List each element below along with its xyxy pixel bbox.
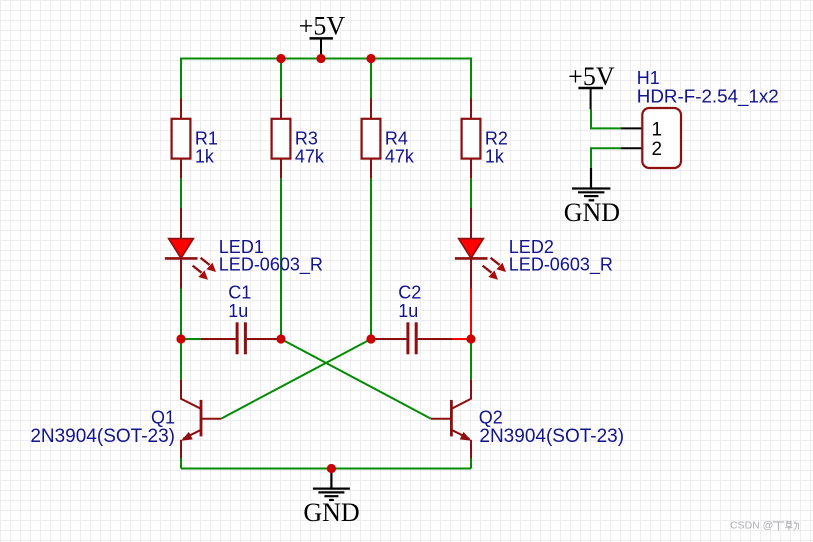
svg-text:+5V: +5V bbox=[568, 62, 615, 91]
label R2 1k bbox=[485, 128, 508, 166]
transistor Q1 bbox=[181, 380, 221, 458]
svg-text:LED-0603_R: LED-0603_R bbox=[509, 255, 613, 276]
svg-text:1u: 1u bbox=[398, 301, 418, 321]
label Q2 2N3904 bbox=[479, 408, 624, 448]
svg-text:R3: R3 bbox=[295, 128, 318, 148]
svg-text:2: 2 bbox=[652, 139, 663, 160]
net label +5V top bbox=[299, 12, 346, 41]
junction bbox=[327, 464, 336, 473]
svg-text:Q2: Q2 bbox=[479, 408, 503, 428]
wire (red) bbox=[470, 289, 472, 340]
label R1 1k bbox=[195, 128, 218, 166]
junction bbox=[366, 54, 375, 63]
resistor R1 bbox=[172, 99, 191, 179]
svg-text:C1: C1 bbox=[228, 283, 251, 303]
wire bbox=[280, 178, 282, 339]
label H1 HDR-F-2.54_1x2 bbox=[637, 68, 779, 107]
wire bbox=[470, 458, 472, 469]
header H1 bbox=[621, 108, 681, 168]
svg-text:47k: 47k bbox=[295, 146, 325, 166]
svg-text:1: 1 bbox=[652, 119, 663, 140]
svg-text:C2: C2 bbox=[398, 283, 421, 303]
wire bbox=[180, 458, 182, 469]
wire bbox=[181, 468, 471, 470]
net label GND bottom bbox=[303, 498, 359, 527]
capacitor C2 bbox=[371, 322, 452, 354]
svg-text:GND: GND bbox=[564, 198, 620, 227]
label Q1 2N3904 bbox=[30, 408, 175, 448]
net label GND right bbox=[564, 198, 620, 227]
label R3 47k bbox=[295, 128, 325, 166]
label C1 1u bbox=[228, 283, 251, 322]
wire bbox=[591, 109, 621, 128]
ground right bbox=[572, 168, 610, 201]
junction bbox=[276, 54, 285, 63]
svg-text:1u: 1u bbox=[228, 301, 248, 321]
LED LED1 bbox=[165, 208, 216, 289]
wire bbox=[281, 339, 431, 419]
transistor Q2 bbox=[431, 380, 471, 458]
wire bbox=[180, 178, 182, 208]
junction bbox=[316, 54, 325, 63]
junction bbox=[366, 334, 375, 343]
svg-text:1k: 1k bbox=[195, 146, 215, 166]
svg-text:R2: R2 bbox=[485, 128, 508, 148]
wire bbox=[221, 339, 371, 419]
watermark CSDN bbox=[730, 520, 799, 532]
wire bbox=[181, 338, 201, 340]
wire bbox=[370, 59, 372, 99]
svg-text:R4: R4 bbox=[385, 128, 408, 148]
wire bbox=[370, 178, 372, 339]
svg-text:Q1: Q1 bbox=[151, 408, 175, 428]
label C2 1u bbox=[398, 283, 421, 322]
junction bbox=[276, 334, 285, 343]
ground bottom bbox=[313, 469, 350, 501]
wire bbox=[280, 59, 282, 99]
svg-text:HDR-F-2.54_1x2: HDR-F-2.54_1x2 bbox=[637, 85, 779, 107]
capacitor C1 bbox=[201, 322, 281, 354]
svg-text:2N3904(SOT-23): 2N3904(SOT-23) bbox=[30, 426, 175, 447]
label LED1 bbox=[219, 237, 323, 276]
wire bbox=[180, 339, 182, 380]
resistor R2 bbox=[462, 99, 481, 179]
wire bbox=[591, 148, 621, 168]
resistor R3 bbox=[272, 99, 291, 179]
junction bbox=[466, 334, 475, 343]
wire bbox=[181, 59, 471, 99]
svg-text:+5V: +5V bbox=[299, 12, 346, 41]
wire (red) bbox=[452, 338, 471, 340]
resistor R4 bbox=[362, 99, 381, 179]
power +5V top bbox=[310, 38, 333, 58]
label LED2 bbox=[509, 237, 613, 276]
svg-text:47k: 47k bbox=[385, 146, 415, 166]
svg-text:GND: GND bbox=[303, 498, 359, 527]
svg-text:CSDN @: CSDN @ bbox=[730, 520, 773, 532]
svg-text:2N3904(SOT-23): 2N3904(SOT-23) bbox=[479, 426, 624, 447]
label R4 47k bbox=[385, 128, 415, 166]
svg-text:LED-0603_R: LED-0603_R bbox=[219, 255, 323, 276]
power +5V right bbox=[578, 88, 603, 109]
wire bbox=[470, 178, 472, 208]
net label +5V right bbox=[568, 62, 615, 91]
svg-text:1k: 1k bbox=[485, 146, 505, 166]
junction bbox=[176, 334, 185, 343]
svg-text:R1: R1 bbox=[195, 128, 218, 148]
wire bbox=[470, 339, 472, 380]
LED LED2 bbox=[455, 208, 506, 289]
wire bbox=[180, 289, 182, 340]
